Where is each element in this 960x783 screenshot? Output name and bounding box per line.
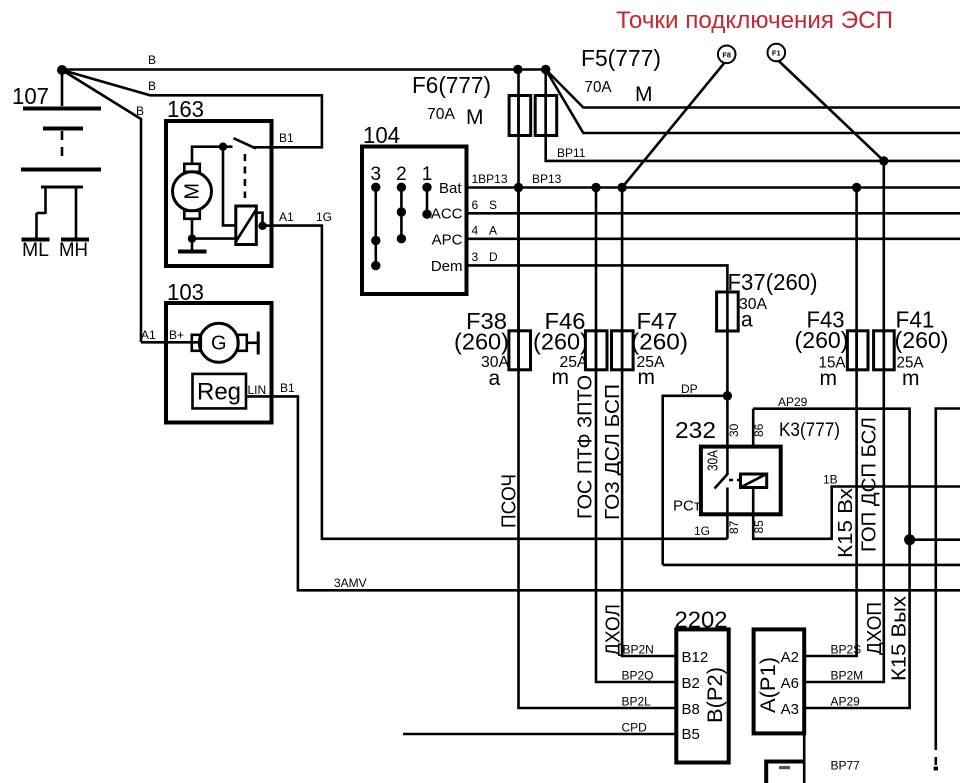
terminal MH bar: [61, 238, 89, 242]
wire F43 vertical (K15 Vh) to A2: [804, 188, 856, 657]
svg-text:(260): (260): [631, 329, 688, 355]
wire right edge to AP29 dot: [910, 538, 960, 541]
fuse F38 wire inside: [517, 331, 520, 370]
partial pin text blob: [779, 766, 790, 769]
wire AP29 from pin86 down to A3: [753, 409, 909, 708]
svg-text:CPD: CPD: [622, 721, 648, 735]
junction dot DP: [723, 391, 732, 400]
junction dot F1-BP11: [879, 156, 888, 165]
junction dot F6 fuse1 top: [513, 65, 522, 74]
svg-text:Bat: Bat: [439, 180, 462, 197]
svg-text:MH: MH: [59, 240, 88, 261]
svg-text:1G: 1G: [316, 210, 332, 224]
wire motor top to switch junction: [192, 147, 223, 164]
svg-text:m: m: [638, 366, 656, 389]
column 1 bar: [426, 187, 429, 214]
switch blade (163): [234, 138, 257, 148]
ground stub (163): [191, 239, 194, 251]
fuse F6-2 wire inside: [544, 96, 547, 136]
dashed end of x935 wire: [934, 757, 937, 765]
terminal ML bar: [22, 238, 50, 242]
svg-text:ML: ML: [22, 240, 49, 261]
svg-text:BP2S: BP2S: [831, 643, 862, 657]
svg-text:APC: APC: [432, 232, 463, 249]
node B (battery positive node): [57, 65, 67, 75]
svg-text:m: m: [552, 366, 570, 389]
svg-text:1: 1: [422, 164, 433, 185]
svg-text:B: B: [148, 79, 156, 93]
svg-text:A6: A6: [781, 675, 799, 692]
junction dot Bat-F43: [852, 183, 861, 192]
connection point circle F1: [768, 44, 786, 62]
fuse F6-1 wire inside: [517, 96, 520, 136]
svg-text:B5: B5: [682, 726, 700, 743]
wire right segment down x935: [936, 409, 960, 751]
junction dot Bat-F47-F8: [617, 183, 626, 192]
wire junction down to solenoid: [223, 147, 236, 226]
svg-text:BP11: BP11: [557, 146, 586, 160]
fuse F41 wire inside: [882, 331, 885, 370]
solenoid diagonal: [236, 211, 255, 242]
fuse F43 wire inside: [855, 331, 858, 370]
wire pin87 down to 1G: [726, 488, 729, 539]
svg-text:BP2Q: BP2Q: [622, 669, 654, 683]
svg-text:3AMV: 3AMV: [334, 576, 367, 590]
wire Dem/D line to F37: [467, 265, 728, 292]
wire B diagonal down to 103: [62, 70, 141, 342]
svg-text:(260): (260): [533, 329, 588, 355]
relay 232 box: [701, 447, 781, 515]
svg-text:B8: B8: [682, 701, 700, 718]
svg-text:70A: 70A: [585, 79, 612, 96]
svg-text:M: M: [635, 83, 653, 106]
battery 107 plates: [23, 107, 101, 111]
svg-text:232: 232: [675, 417, 716, 443]
svg-text:DP: DP: [681, 382, 698, 396]
junction dot switch (163): [219, 143, 227, 151]
unit 103 box: [166, 303, 272, 423]
svg-text:(260): (260): [795, 327, 849, 353]
connector A(P1) box: [754, 629, 805, 733]
junction dot motor bottom: [188, 234, 196, 242]
connection point circle F8: [718, 46, 736, 64]
svg-text:PCт: PCт: [673, 498, 701, 515]
svg-text:A: A: [489, 224, 497, 238]
svg-text:3: 3: [472, 250, 479, 264]
wire switch to B1 pin: [254, 146, 272, 149]
wire CPD to B5: [403, 733, 676, 736]
svg-text:B12: B12: [682, 649, 709, 666]
svg-text:1G: 1G: [694, 524, 710, 538]
wire F6 fuse1 vertical: [517, 70, 520, 331]
unit 163 box: [166, 121, 272, 266]
svg-text:AP29: AP29: [831, 695, 861, 709]
svg-text:3: 3: [371, 164, 382, 185]
column 2 dots: [397, 183, 406, 192]
wire B diagonal to 163 feed: [62, 70, 322, 147]
solenoid hook to output: [256, 213, 262, 226]
wire A(P1) right edge extension: [803, 733, 806, 783]
column 3 dots: [371, 183, 380, 192]
wire A1 output of 163: [263, 224, 272, 227]
svg-text:70A: 70A: [427, 106, 455, 123]
svg-text:LIN: LIN: [248, 383, 267, 397]
svg-text:30A: 30A: [705, 450, 722, 471]
svg-text:F6(777): F6(777): [412, 72, 491, 98]
wire F47 vertical (GOZ) down to B12: [622, 188, 676, 657]
svg-text:104: 104: [363, 122, 400, 148]
svg-text:AP29: AP29: [778, 395, 808, 409]
fuse F38 body: [509, 331, 531, 370]
dashed actuator link (163): [244, 154, 247, 198]
fuse F47 body: [612, 331, 634, 370]
wire Bat/BP13 line: [467, 186, 960, 189]
relay switch blade: [715, 474, 729, 489]
svg-text:F37(260): F37(260): [728, 269, 818, 295]
svg-text:1BP13: 1BP13: [472, 172, 508, 186]
wire motor bottom to solenoid: [192, 237, 236, 240]
svg-text:M: M: [182, 183, 204, 200]
svg-text:ПСОЧ: ПСОЧ: [499, 474, 521, 528]
relay blade dashes: [729, 479, 741, 482]
connector B(P2) box: [676, 629, 728, 762]
svg-text:m: m: [902, 367, 920, 390]
svg-text:F8: F8: [722, 51, 731, 60]
generator right T-bar: [247, 341, 258, 344]
wire F46 vertical (GOS) down to B2: [596, 188, 676, 683]
svg-text:К15 Вых: К15 Вых: [889, 596, 911, 681]
svg-text:Dem: Dem: [431, 258, 463, 275]
junction dot AP29 crossing: [904, 534, 915, 545]
connector bottom partial box: [766, 762, 804, 783]
fuse F37 body: [717, 292, 739, 331]
wire F1 diagonal to BP11: [779, 61, 884, 161]
column 3 bar: [374, 187, 377, 265]
svg-text:G: G: [211, 333, 227, 355]
svg-text:F1: F1: [772, 49, 781, 58]
svg-text:6: 6: [472, 198, 479, 212]
svg-text:ГОЗ ДСЛ БСП: ГОЗ ДСЛ БСП: [602, 384, 624, 520]
wire junction stub: [223, 145, 233, 148]
svg-text:B2: B2: [682, 675, 700, 692]
Reg box: [193, 374, 247, 409]
svg-text:a: a: [489, 367, 501, 390]
svg-text:ГОП ДСП БСЛ: ГОП ДСП БСЛ: [859, 417, 881, 552]
junction dot Bat-F38: [514, 183, 523, 192]
wire F38 vertical (PSOCH) down to B8: [519, 188, 677, 709]
relay coil box: [741, 474, 767, 488]
wire DP horizontal and left drop: [663, 396, 728, 565]
wire F6 fuse2 vertical + BP11 line: [546, 70, 960, 161]
wire pin30 from DP to relay: [726, 396, 729, 474]
wire LIN/B1 from Reg down to 3AMV line: [246, 396, 960, 590]
ground bar (163): [178, 250, 207, 254]
wire pin86 to AP29: [752, 409, 755, 447]
svg-text:107: 107: [12, 83, 49, 109]
column 1 dots: [422, 183, 431, 192]
svg-text:a: a: [741, 309, 753, 332]
svg-text:1B: 1B: [823, 473, 838, 487]
motor brush bottom: [184, 211, 200, 219]
svg-text:BP2N: BP2N: [623, 643, 654, 657]
fuse F41 body: [874, 331, 895, 370]
wire pin85 to 1B: [753, 487, 960, 539]
wire APC/A line: [467, 238, 960, 241]
svg-text:30: 30: [727, 423, 741, 437]
wire B top horizontal to fuses: [62, 68, 546, 71]
fuse F47 wire inside: [621, 331, 624, 370]
svg-text:BP2L: BP2L: [622, 695, 652, 709]
svg-text:B+: B+: [169, 328, 184, 342]
junction dot Bat-F46: [591, 183, 600, 192]
svg-text:F5(777): F5(777): [581, 45, 661, 71]
svg-text:К15 Вх: К15 Вх: [835, 488, 857, 558]
generator G circle: [199, 323, 238, 362]
motor brush top: [184, 164, 200, 172]
svg-text:85: 85: [752, 520, 766, 534]
fuse F43 body: [847, 331, 868, 370]
wire motor bottom to ground: [191, 219, 194, 239]
svg-text:B: B: [148, 53, 156, 67]
fuse F6-2 body: [535, 96, 557, 136]
svg-text:ACC: ACC: [431, 206, 463, 223]
fuse F6-1 body: [509, 96, 531, 136]
svg-text:ГОС ПТФ ЗПТО: ГОС ПТФ ЗПТО: [575, 375, 597, 519]
svg-text:m: m: [820, 367, 838, 390]
svg-text:B1: B1: [280, 381, 295, 395]
column 2 bar: [400, 187, 403, 238]
wire F8 diagonal to BP13: [622, 63, 724, 188]
svg-text:A2: A2: [781, 649, 799, 666]
svg-text:B1: B1: [279, 131, 294, 145]
wire DP net to right edge: [663, 564, 960, 567]
wire 1G from 163 to relay pin 87: [272, 226, 728, 539]
unit 104 box: [362, 147, 467, 295]
wire ACC/S line: [467, 212, 960, 215]
svg-text:(260): (260): [454, 329, 509, 355]
svg-text:S: S: [489, 198, 497, 212]
fuse F37 wire inside: [726, 292, 729, 331]
svg-text:BP13: BP13: [532, 172, 562, 186]
fuse F46 body: [585, 331, 607, 370]
solenoid box (163): [236, 206, 256, 245]
svg-text:87: 87: [727, 520, 741, 534]
svg-text:2: 2: [396, 164, 407, 185]
wire F5 output 2: [546, 70, 960, 134]
svg-text:4: 4: [472, 224, 479, 238]
junction dot solenoid output: [258, 222, 266, 230]
svg-text:B(P2): B(P2): [704, 667, 727, 723]
generator terminal right: [238, 335, 247, 351]
svg-text:A1: A1: [141, 328, 156, 342]
junction dot F6 fuse2 top: [541, 65, 550, 74]
svg-text:163: 163: [167, 96, 204, 122]
wire F5 output 1: [546, 70, 960, 108]
wire A1 into 103: [141, 341, 199, 344]
svg-text:D: D: [489, 250, 498, 264]
svg-text:Reg: Reg: [197, 379, 241, 406]
svg-text:K3(777): K3(777): [779, 420, 840, 441]
battery 107 ML/MH bracket: [41, 186, 83, 189]
svg-text:ДХОЛ: ДХОЛ: [603, 604, 625, 656]
svg-text:Точки подключения ЭСП: Точки подключения ЭСП: [616, 7, 893, 34]
svg-text:BP77: BP77: [831, 759, 861, 773]
svg-text:M: M: [466, 106, 484, 129]
fuse F46 wire inside: [595, 331, 598, 370]
svg-text:A(P1): A(P1): [757, 657, 780, 713]
svg-text:B: B: [136, 104, 144, 118]
wire F41 vertical (GOP) to A6: [804, 161, 884, 682]
relay coil diagonal: [742, 475, 765, 487]
generator terminal left: [192, 335, 201, 351]
motor M circle (163): [173, 172, 212, 211]
wire F37 down to DP node: [726, 331, 729, 396]
svg-text:A1: A1: [279, 210, 294, 224]
svg-text:BP2M: BP2M: [831, 669, 864, 683]
svg-text:A3: A3: [781, 701, 799, 718]
svg-text:(260): (260): [895, 327, 949, 353]
